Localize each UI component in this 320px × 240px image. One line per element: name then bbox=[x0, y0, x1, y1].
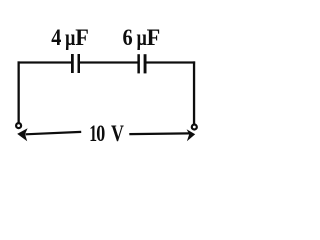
svg-text:4: 4 bbox=[51, 25, 61, 51]
svg-text:F: F bbox=[75, 25, 89, 51]
capacitor C2 (6 uF) right plate bbox=[144, 54, 147, 73]
terminal: right open circle bbox=[192, 125, 197, 130]
terminal: left open circle bbox=[16, 123, 21, 128]
svg-text:0: 0 bbox=[96, 121, 105, 147]
arrow: left arrowhead pointing left at left terminal bbox=[17, 128, 27, 141]
arrow: right arrowhead pointing right at right terminal bbox=[187, 129, 196, 141]
svg-text:F: F bbox=[147, 25, 161, 51]
capacitor C1 (4 uF) right plate bbox=[78, 54, 81, 73]
arrow: left half of 10 V dimension arrow, shaft bbox=[26, 132, 82, 134]
capacitor C2 (6 uF) left plate bbox=[137, 54, 140, 73]
arrow: right half of 10 V dimension arrow, shaft bbox=[129, 132, 189, 135]
wire: left vertical drop to left terminal bbox=[18, 61, 20, 124]
svg-text:µ: µ bbox=[65, 25, 76, 51]
wire: top rail, left segment (top-left corner to C1 left plate) bbox=[18, 61, 72, 63]
wire: top rail, right segment (C2 right plate to top-right corner) bbox=[146, 61, 195, 63]
wire: right vertical drop to right terminal bbox=[193, 61, 195, 125]
wire: top rail, middle segment (C1 right plate to C2 left plate) bbox=[80, 61, 139, 63]
capacitor C1 (4 uF) left plate bbox=[71, 54, 74, 73]
svg-text:V: V bbox=[111, 121, 124, 147]
svg-text:6: 6 bbox=[123, 25, 133, 51]
